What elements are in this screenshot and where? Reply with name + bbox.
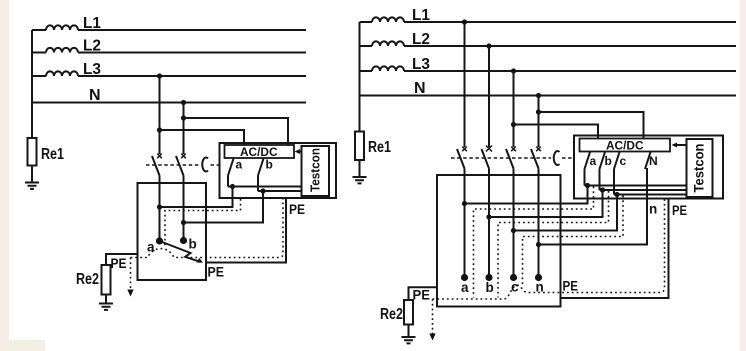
svg-text:b: b xyxy=(605,154,612,168)
wire contact line a to Testcon right xyxy=(585,185,687,187)
wire Re2 PE to socket right xyxy=(409,287,438,300)
contact c right xyxy=(510,274,517,281)
node on L3 right xyxy=(511,68,516,73)
node on N right xyxy=(536,93,541,98)
wire L3 bus xyxy=(32,75,306,77)
test adapter box U2 xyxy=(574,136,723,199)
inductor on L3 right xyxy=(372,66,404,71)
wire riser a right xyxy=(465,186,588,204)
socket box right xyxy=(437,175,561,307)
svg-text:AC/DC: AC/DC xyxy=(606,139,644,153)
wire breaker a lower to contact xyxy=(464,169,466,278)
resistor Re1 xyxy=(28,138,37,166)
contact a right xyxy=(461,274,468,281)
breaker n blade xyxy=(531,149,539,169)
wire Re1 right to ground xyxy=(359,160,361,177)
control symbol C xyxy=(202,157,208,171)
breaker Q2 contact cross xyxy=(181,154,186,159)
wire breaker n lower to contact xyxy=(538,169,540,278)
breaker c contact cross xyxy=(511,147,516,152)
node feeder AC on breaker1 wire xyxy=(157,127,162,132)
wire L3 bus right xyxy=(360,70,737,72)
breaker Q1 blade xyxy=(152,156,160,176)
svg-text:Re2: Re2 xyxy=(380,306,403,323)
contact b right xyxy=(485,274,492,281)
inductor on L2 xyxy=(46,48,78,53)
contact n right xyxy=(535,274,542,281)
svg-text:n: n xyxy=(649,202,657,217)
node on L1 right xyxy=(462,19,467,24)
svg-text:b: b xyxy=(486,280,494,295)
node on wire a xyxy=(157,204,162,209)
ground xyxy=(353,177,367,183)
svg-text:a: a xyxy=(461,280,469,295)
dotted PE path a right xyxy=(474,187,594,298)
node a line xyxy=(230,184,235,189)
wire contact line a to Testcon xyxy=(228,186,302,188)
coupling dashed to box right xyxy=(562,157,574,159)
wire feeder L3 to AC/DC xyxy=(160,130,245,145)
svg-text:Testcon: Testcon xyxy=(692,144,707,193)
coupling dashed link to box xyxy=(211,164,220,166)
wire L2 bus right xyxy=(360,45,737,47)
node wire n right xyxy=(536,242,541,247)
inductor on L3 xyxy=(46,71,78,76)
contact b xyxy=(180,237,187,244)
svg-text:c: c xyxy=(511,280,519,295)
svg-text:PE: PE xyxy=(289,202,305,217)
node feeder N on breaker2 wire xyxy=(181,115,186,120)
wire breaker2 lower to contact b xyxy=(183,176,185,241)
svg-text:L1: L1 xyxy=(412,7,430,24)
wire breaker b lower to contact xyxy=(488,169,490,278)
node on L2 right xyxy=(486,43,491,48)
node wire b right xyxy=(486,214,491,219)
switch b blade right xyxy=(600,152,606,169)
wire breaker b upper xyxy=(488,46,490,147)
breaker n contact cross xyxy=(536,147,541,152)
wire left feeder vertical right xyxy=(359,22,361,132)
wire switch a stub right xyxy=(584,169,586,186)
Testcon box xyxy=(302,146,330,196)
node line a right xyxy=(585,183,590,188)
node on wire b xyxy=(181,220,186,225)
switch N blade right xyxy=(645,152,651,169)
dotted PE arrow down xyxy=(130,258,132,292)
wire feeder L3 to AC/DC right xyxy=(514,125,599,139)
test adapter box U1 xyxy=(220,143,337,198)
node b line xyxy=(260,188,265,193)
svg-text:PE: PE xyxy=(111,256,127,271)
wire breaker n upper xyxy=(538,96,540,148)
svg-text:Re2: Re2 xyxy=(76,271,99,288)
wire Re2 PE to socket xyxy=(106,254,138,265)
svg-text:Re1: Re1 xyxy=(41,146,64,163)
coupling dashed link right xyxy=(451,157,551,159)
wire switch N to contact n xyxy=(539,168,648,245)
wire PE solid from adapter to socket right xyxy=(561,200,669,299)
svg-text:N: N xyxy=(89,87,101,104)
svg-text:L2: L2 xyxy=(83,38,101,55)
wire feeder N to AC/DC xyxy=(184,118,289,145)
dotted PE rail with hump xyxy=(131,199,284,258)
switch a blade xyxy=(228,159,234,176)
wire breaker1 upper xyxy=(159,76,161,154)
wire switch c stub right xyxy=(613,169,615,195)
dotted PE rail with hump right xyxy=(433,200,665,300)
Testcon box right xyxy=(687,139,713,197)
contact a xyxy=(156,237,163,244)
switch a blade right xyxy=(585,152,591,169)
node line b right xyxy=(600,187,605,192)
dotted PE arrow down right xyxy=(432,299,434,334)
wire Re2 to ground xyxy=(105,295,107,304)
resistor Re2 xyxy=(102,265,111,295)
svg-text:L3: L3 xyxy=(412,56,430,73)
svg-text:PE: PE xyxy=(413,288,431,303)
wire N bus xyxy=(32,102,306,104)
breaker a contact cross xyxy=(462,147,467,152)
wire Re2 right to ground xyxy=(408,325,410,338)
wire riser c right xyxy=(514,195,618,231)
wire left feeder vertical xyxy=(31,30,33,138)
coupling dashed link xyxy=(146,164,200,166)
wire switch b stub right xyxy=(599,169,601,190)
node wire c right xyxy=(511,228,516,233)
dotted PE path c right xyxy=(523,196,624,285)
svg-text:Testcon: Testcon xyxy=(308,148,323,192)
wire breaker a upper xyxy=(464,22,466,147)
wire contact line b to Testcon xyxy=(258,190,302,192)
resistor Re2 right xyxy=(404,300,413,325)
svg-text:c: c xyxy=(620,154,627,168)
svg-text:PE: PE xyxy=(672,203,687,218)
svg-text:N: N xyxy=(649,154,658,168)
node wire a right xyxy=(462,201,467,206)
ground xyxy=(402,337,416,343)
AC/DC converter box xyxy=(225,145,295,158)
wire breaker1 lower to contact a xyxy=(159,176,161,242)
wire breaker c lower to contact xyxy=(513,169,515,278)
breaker Q2 blade xyxy=(176,156,184,176)
inductor on L2 right xyxy=(372,41,404,46)
svg-text:b: b xyxy=(266,158,273,172)
breaker b contact cross xyxy=(486,146,492,152)
wire drop b to socket xyxy=(184,191,264,223)
wire L1 bus right xyxy=(360,21,737,23)
svg-text:a: a xyxy=(236,158,243,172)
wire breaker2 upper xyxy=(183,103,185,155)
svg-text:Re1: Re1 xyxy=(368,139,391,156)
svg-text:L1: L1 xyxy=(83,15,101,32)
arrow Testcon to AC/DC xyxy=(298,151,302,153)
ground xyxy=(99,304,113,310)
wire drop a to socket xyxy=(160,187,233,208)
wire switch b stub xyxy=(257,176,259,192)
svg-text:L2: L2 xyxy=(412,31,430,48)
breaker b blade xyxy=(482,149,490,169)
wire N bus right xyxy=(360,95,737,97)
wire riser b right xyxy=(489,190,603,217)
svg-text:b: b xyxy=(189,237,197,252)
svg-text:N: N xyxy=(414,80,426,97)
wire contact line c to Testcon right xyxy=(614,194,687,196)
node feeder L3 right xyxy=(511,122,516,127)
wire breaker c upper xyxy=(513,71,515,147)
node on N xyxy=(181,100,186,105)
breaker Q1 contact cross xyxy=(157,154,162,159)
AC/DC converter box right xyxy=(580,139,671,152)
dotted PE path b right xyxy=(498,191,609,298)
control symbol C right xyxy=(554,151,560,165)
switch b blade xyxy=(258,159,264,176)
node on L3 xyxy=(157,73,162,78)
wire feeder N to AC/DC right xyxy=(539,112,644,139)
inductor on L1 right xyxy=(372,17,404,22)
wire PE solid from box bottom to socket edge xyxy=(206,198,286,263)
breaker c blade xyxy=(506,149,514,169)
socket box left xyxy=(138,183,207,280)
wire switch a stub xyxy=(227,176,229,187)
wire contact line b to Testcon right xyxy=(600,189,687,191)
switch c blade right xyxy=(614,152,620,169)
breaker a blade xyxy=(457,149,465,169)
lever arrow from contact a to PE xyxy=(160,241,200,262)
svg-text:a: a xyxy=(147,240,155,255)
svg-text:PE: PE xyxy=(208,265,225,280)
wire L1 bus xyxy=(32,29,306,31)
wire L2 bus xyxy=(32,52,306,54)
node feeder N right xyxy=(536,109,541,114)
svg-text:a: a xyxy=(590,154,597,168)
svg-text:L3: L3 xyxy=(83,61,101,78)
wire Re1 to ground xyxy=(31,166,33,183)
resistor Re1 right xyxy=(355,132,364,161)
node line c right xyxy=(614,192,619,197)
inductor on L1 xyxy=(46,25,78,30)
dotted PE path from adapter bottom to socket xyxy=(165,199,241,248)
arrow Testcon to AC/DC right xyxy=(675,144,687,146)
svg-text:PE: PE xyxy=(563,279,579,294)
ground xyxy=(25,183,39,189)
